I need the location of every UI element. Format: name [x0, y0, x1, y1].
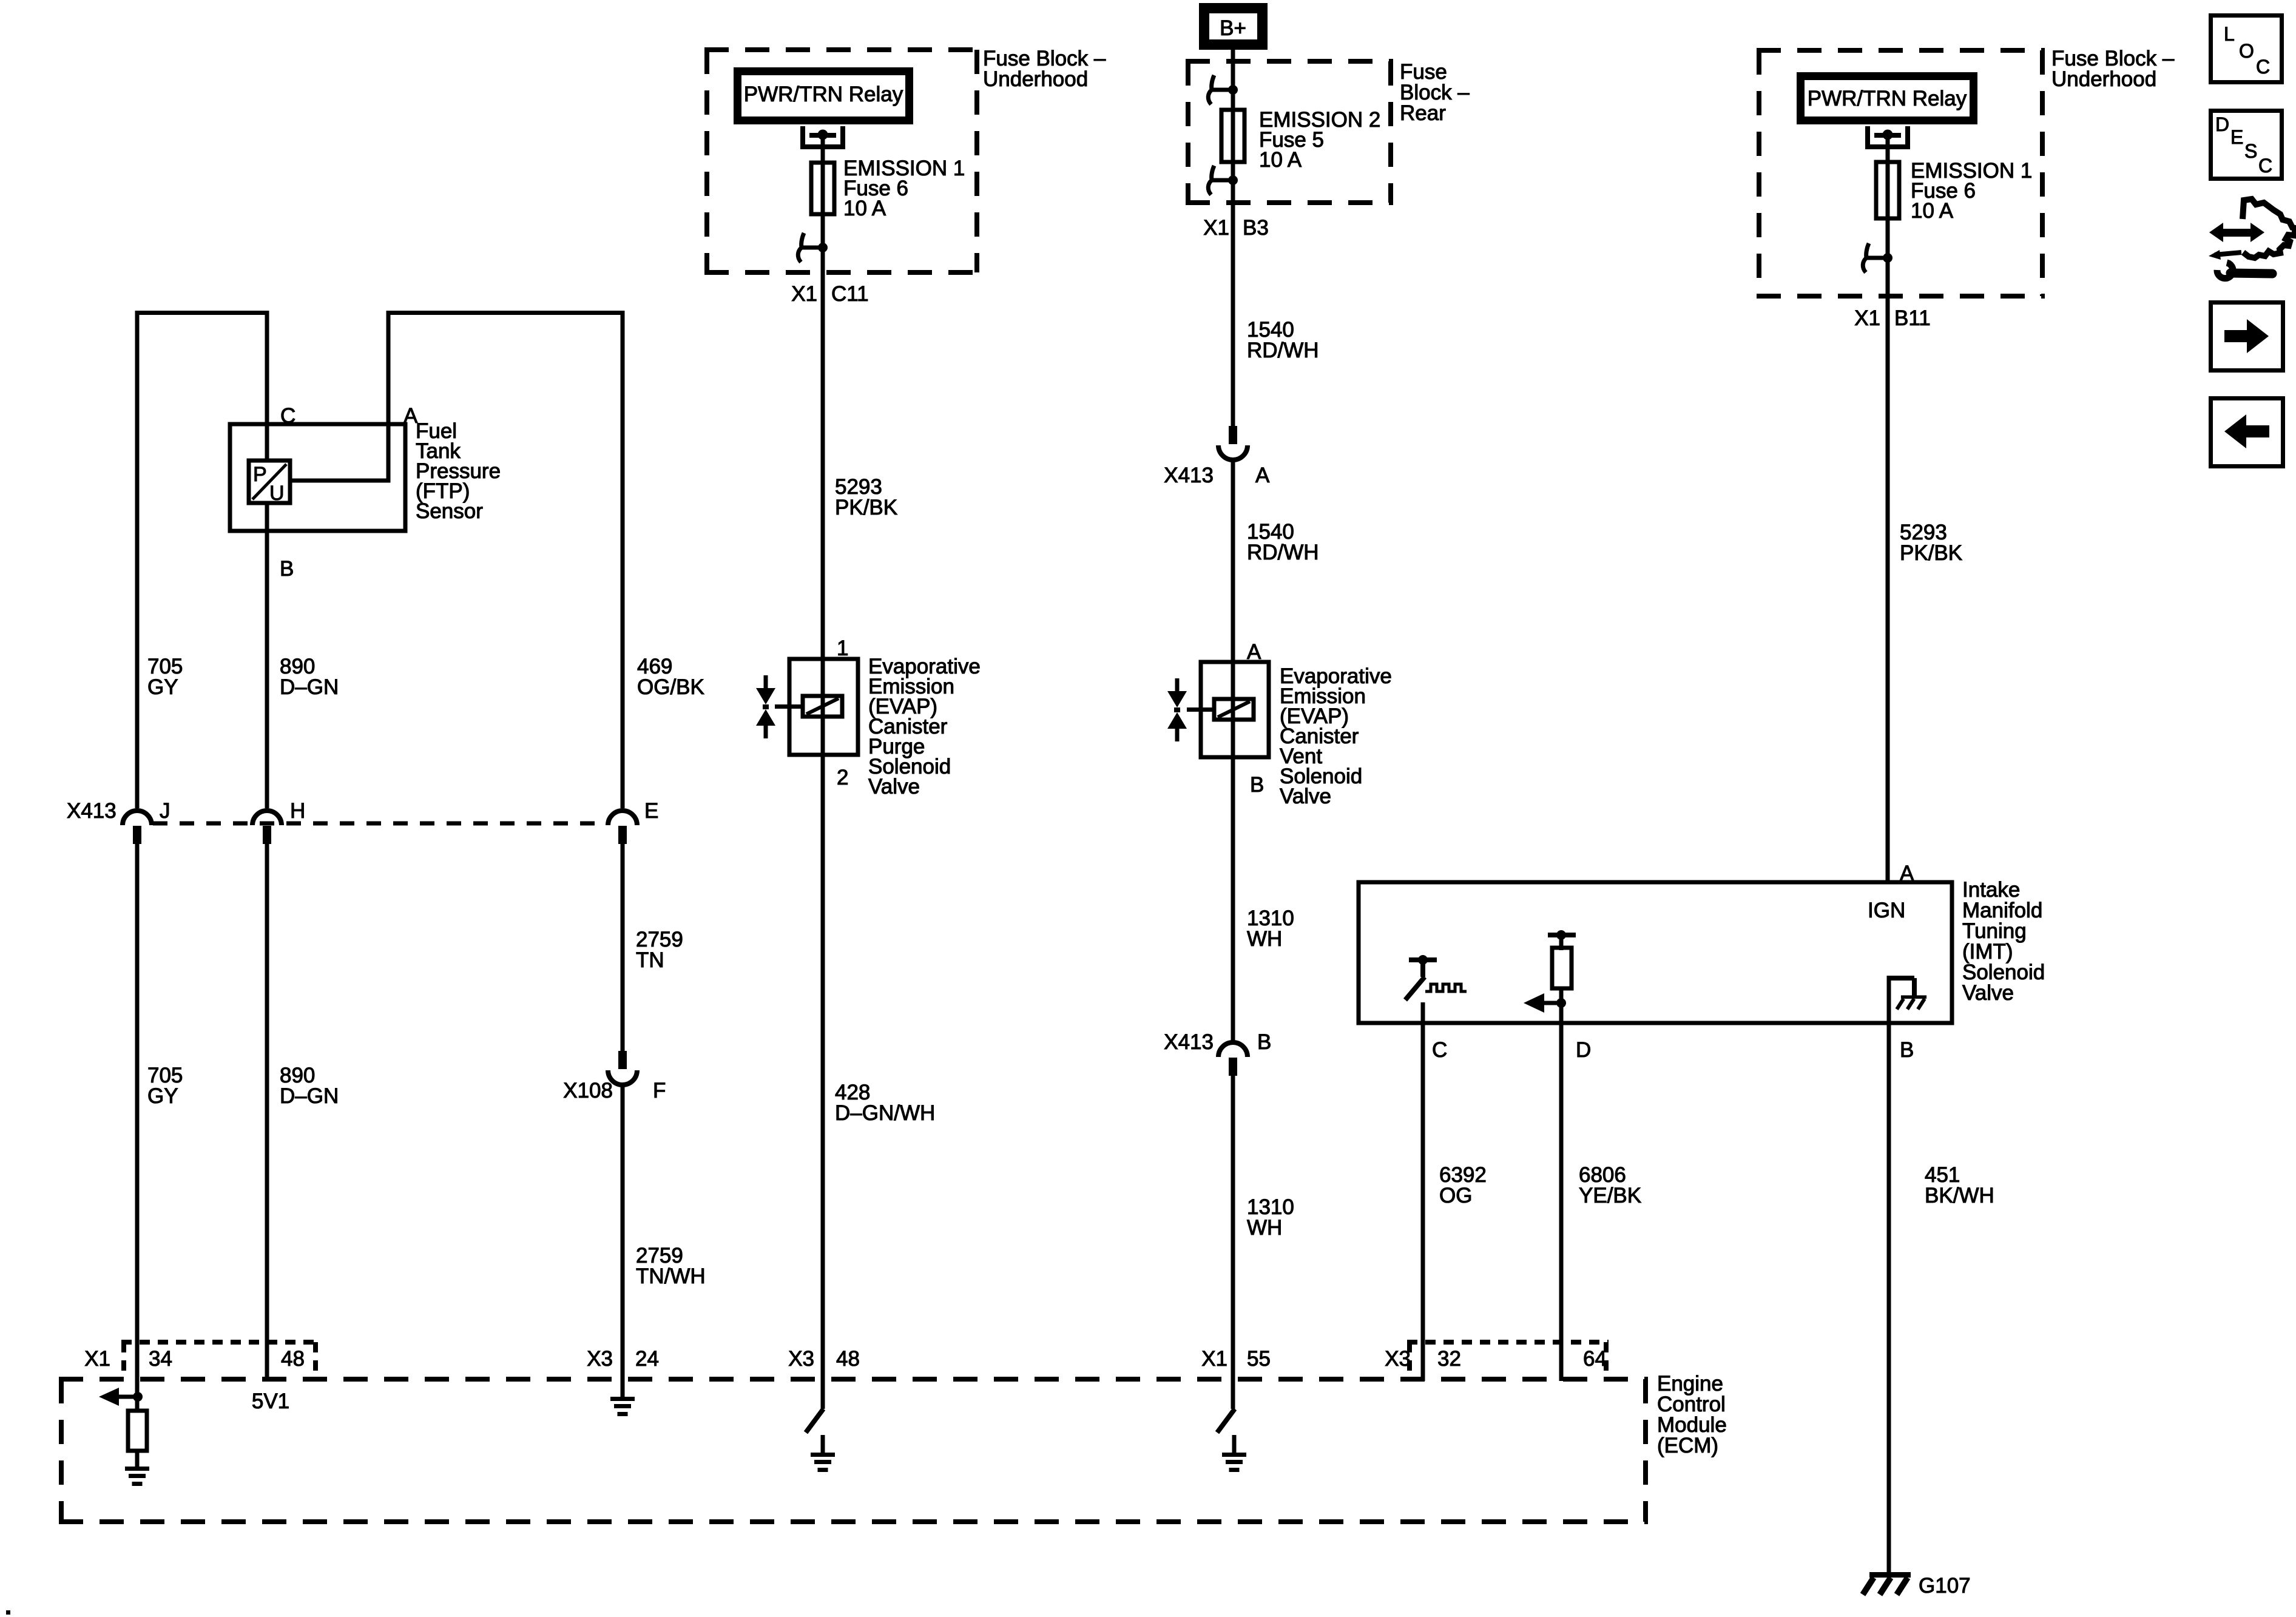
svg-text:E: E — [644, 799, 658, 823]
svg-text:H: H — [290, 799, 305, 823]
svg-text:10 A: 10 A — [843, 197, 886, 220]
svg-text:RD/WH: RD/WH — [1247, 339, 1319, 362]
svg-text:X1: X1 — [1854, 306, 1880, 330]
svg-text:D–GN: D–GN — [280, 675, 339, 699]
svg-text:F: F — [653, 1079, 666, 1102]
svg-text:GY: GY — [147, 1084, 178, 1108]
svg-text:D–GN/WH: D–GN/WH — [835, 1101, 935, 1125]
svg-text:C: C — [1432, 1038, 1447, 1062]
svg-text:X1: X1 — [1203, 216, 1229, 240]
svg-text:5V1: 5V1 — [252, 1389, 289, 1413]
svg-text:C: C — [2256, 56, 2270, 78]
svg-text:J: J — [160, 799, 171, 823]
svg-text:48: 48 — [281, 1347, 305, 1371]
svg-text:OG/BK: OG/BK — [637, 675, 704, 699]
svg-text:C: C — [2258, 155, 2272, 177]
svg-text:S: S — [2244, 140, 2257, 162]
svg-text:BK/WH: BK/WH — [1925, 1184, 1994, 1207]
svg-text:D–GN: D–GN — [280, 1084, 339, 1108]
svg-text:E: E — [2230, 126, 2243, 148]
svg-text:X413: X413 — [1164, 1030, 1214, 1054]
svg-text:32: 32 — [1437, 1347, 1461, 1371]
svg-text:Valve: Valve — [868, 775, 920, 798]
svg-text:X1: X1 — [84, 1347, 110, 1371]
svg-text:X3: X3 — [788, 1347, 814, 1371]
svg-text:1: 1 — [837, 636, 848, 660]
svg-text:X108: X108 — [563, 1079, 613, 1102]
svg-text:O: O — [2239, 40, 2254, 62]
svg-text:X1: X1 — [1201, 1347, 1227, 1371]
svg-text:B+: B+ — [1220, 16, 1246, 40]
svg-text:RD/WH: RD/WH — [1247, 541, 1319, 564]
svg-text:YE/BK: YE/BK — [1579, 1184, 1641, 1207]
svg-text:TN: TN — [636, 948, 664, 972]
svg-text:L: L — [2224, 23, 2235, 45]
svg-text:10 A: 10 A — [1911, 199, 1954, 223]
svg-text:Sensor: Sensor — [416, 499, 483, 523]
svg-text:WH: WH — [1247, 927, 1282, 951]
svg-text:IGN: IGN — [1868, 899, 1905, 922]
svg-text:X3: X3 — [587, 1347, 613, 1371]
svg-text:X3: X3 — [1385, 1347, 1411, 1371]
svg-text:Underhood: Underhood — [2051, 67, 2156, 91]
svg-text:G107: G107 — [1919, 1574, 1971, 1598]
svg-text:X413: X413 — [67, 799, 116, 823]
svg-text:X1: X1 — [791, 282, 817, 306]
svg-text:2: 2 — [837, 766, 848, 789]
svg-text:D: D — [2215, 113, 2229, 135]
svg-text:TN/WH: TN/WH — [636, 1264, 706, 1288]
svg-text:B3: B3 — [1243, 216, 1269, 240]
svg-text:A: A — [1255, 464, 1270, 487]
svg-text:34: 34 — [149, 1347, 172, 1371]
svg-text:X413: X413 — [1164, 464, 1214, 487]
svg-text:U: U — [269, 482, 285, 505]
svg-text:B11: B11 — [1894, 306, 1931, 330]
svg-text:C: C — [280, 404, 295, 428]
svg-text:B: B — [1257, 1030, 1271, 1054]
svg-text:Valve: Valve — [1280, 785, 1331, 808]
svg-text:24: 24 — [635, 1347, 659, 1371]
svg-text:PWR/TRN Relay: PWR/TRN Relay — [1808, 87, 1967, 110]
svg-text:GY: GY — [147, 675, 178, 699]
svg-text:A: A — [1900, 862, 1914, 885]
svg-text:WH: WH — [1247, 1216, 1282, 1240]
svg-text:OG: OG — [1439, 1184, 1472, 1207]
svg-text:PWR/TRN Relay: PWR/TRN Relay — [744, 83, 903, 106]
svg-text:B: B — [280, 557, 294, 581]
svg-text:48: 48 — [836, 1347, 860, 1371]
svg-text:Rear: Rear — [1400, 101, 1446, 125]
svg-text:B: B — [1250, 773, 1264, 797]
svg-text:P: P — [253, 463, 267, 486]
svg-text:Valve: Valve — [1962, 981, 2014, 1005]
svg-text:PK/BK: PK/BK — [1900, 541, 1962, 565]
svg-text:PK/BK: PK/BK — [835, 496, 897, 519]
svg-text:Underhood: Underhood — [983, 67, 1088, 91]
svg-text:B: B — [1900, 1038, 1914, 1062]
svg-text:(ECM): (ECM) — [1657, 1434, 1718, 1457]
svg-text:D: D — [1576, 1038, 1591, 1062]
svg-text:C11: C11 — [831, 282, 869, 306]
svg-text:55: 55 — [1247, 1347, 1271, 1371]
svg-text:10 A: 10 A — [1259, 148, 1302, 172]
svg-text:64: 64 — [1583, 1347, 1607, 1371]
